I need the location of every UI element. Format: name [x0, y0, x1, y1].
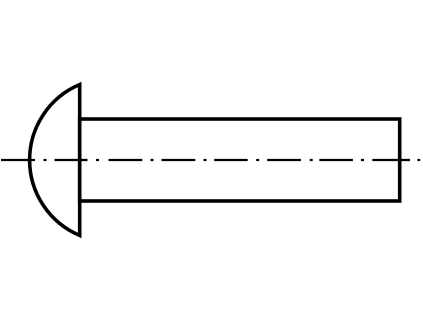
rivet round head (dome outline) [30, 85, 80, 236]
rivet shank (cylindrical body rectangle) [80, 119, 400, 201]
centerline (dash-dot axis) [1, 159, 420, 161]
